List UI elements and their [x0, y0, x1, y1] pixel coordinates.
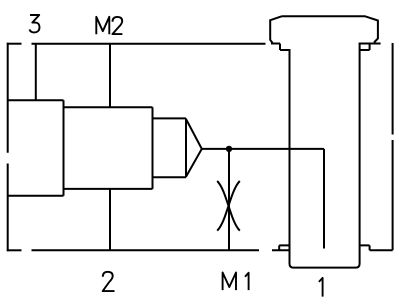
wire boundary bottom dash 4	[370, 249, 393, 251]
orifice restrictor X curve 2	[217, 181, 240, 231]
wire port M2	[109, 44, 111, 107]
wire main horizontal	[202, 148, 324, 150]
node body notch bottom-right	[360, 245, 370, 250]
wire port 3	[35, 44, 37, 100]
wire restrictor branch	[228, 149, 230, 250]
wire boundary top dash 1	[7, 43, 22, 45]
node junction dot	[226, 146, 232, 152]
node poppet cone	[186, 119, 202, 177]
node cartridge cap	[270, 16, 380, 43]
wire boundary right dash 2	[392, 140, 394, 250]
wire boundary top dash 2	[32, 43, 266, 45]
label port 3	[30, 15, 40, 32]
node cartridge body	[290, 44, 360, 268]
label port M2 digit 2	[112, 17, 122, 34]
node valve left block	[8, 100, 64, 196]
wire port 2	[109, 189, 111, 250]
node body notch bottom-left	[279, 245, 289, 250]
label port M1 letter M	[223, 273, 236, 291]
label port 2	[103, 272, 115, 291]
label port 1	[319, 278, 323, 297]
wire boundary bottom dash 1	[7, 249, 22, 251]
wire body inner line	[323, 149, 325, 249]
label port M2 letter M	[96, 17, 109, 34]
wire boundary right dash 1	[392, 43, 394, 135]
label port M1 digit 1	[245, 273, 249, 290]
orifice restrictor X curve 1	[217, 181, 240, 231]
node cap notch top-left	[280, 44, 290, 51]
node cap notch top-right	[360, 44, 370, 51]
node valve small block	[153, 118, 187, 177]
wire boundary left dash 1	[7, 43, 9, 153]
wire boundary bottom dash 2	[32, 249, 260, 251]
node valve middle block	[64, 107, 153, 189]
wire boundary bottom dash 3	[272, 249, 290, 251]
wire boundary left dash 2	[7, 164, 9, 252]
